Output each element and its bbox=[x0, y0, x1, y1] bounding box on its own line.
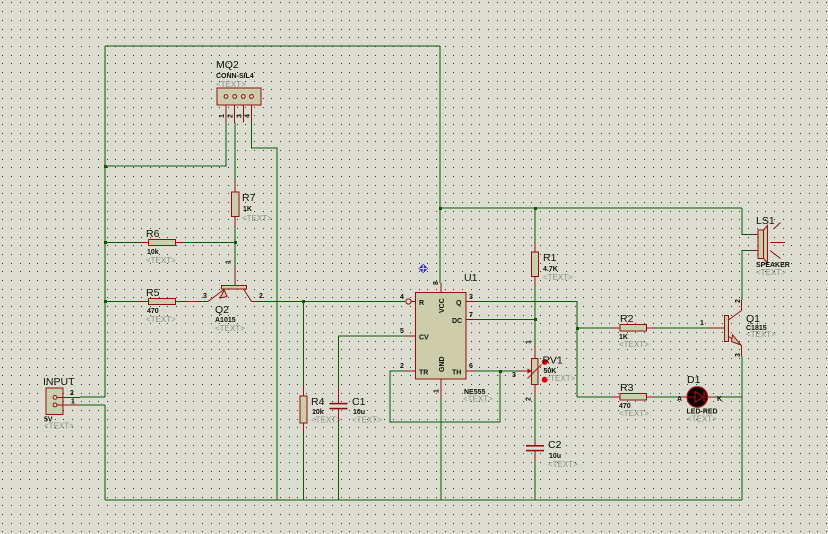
wire INPUT pin2 to rail bbox=[80, 396, 105, 398]
wire R3 right to LED anode bbox=[655, 396, 680, 398]
svg-text:2: 2 bbox=[526, 397, 533, 401]
resistor R4 bbox=[300, 386, 341, 432]
svg-text:TR: TR bbox=[419, 370, 428, 377]
wire MQ2 pin1 to left rail bbox=[105, 123, 226, 167]
wire speaker pin2 to Q1 collector bbox=[742, 251, 753, 301]
svg-text:2: 2 bbox=[259, 293, 263, 300]
resistor R7 bbox=[232, 181, 273, 226]
capacitor C1 bbox=[330, 386, 383, 425]
wire mid rail y=206 bbox=[440, 207, 742, 209]
svg-text:1: 1 bbox=[526, 340, 533, 344]
wire RV1 bottom to C2 bbox=[534, 397, 536, 440]
wire R2 right to Q1 base bbox=[655, 327, 708, 329]
svg-text:1: 1 bbox=[71, 399, 75, 406]
wire Q1 emitter down to ground bbox=[741, 356, 743, 500]
svg-text:<TEXT>: <TEXT> bbox=[352, 416, 382, 425]
svg-text:1: 1 bbox=[226, 260, 233, 264]
svg-text:1: 1 bbox=[700, 320, 704, 327]
svg-text:<TEXT>: <TEXT> bbox=[242, 214, 272, 223]
wire branch to R2 bbox=[577, 327, 612, 329]
wire speaker pin1 from rail bbox=[742, 208, 753, 235]
svg-text:U1: U1 bbox=[464, 272, 478, 284]
wire R6 left to rail bbox=[105, 242, 140, 244]
svg-text:RV1: RV1 bbox=[543, 355, 563, 367]
svg-text:CONN-SIL4: CONN-SIL4 bbox=[216, 73, 254, 80]
svg-text:MQ2: MQ2 bbox=[216, 59, 239, 71]
svg-text:R2: R2 bbox=[620, 313, 634, 325]
node junction TH loop bbox=[499, 370, 502, 373]
resistor R2 bbox=[612, 313, 655, 349]
svg-text:3: 3 bbox=[469, 294, 473, 301]
wire bottom ground rail bbox=[105, 499, 742, 501]
svg-text:470: 470 bbox=[147, 308, 159, 315]
svg-text:2: 2 bbox=[228, 114, 235, 118]
svg-text:DC: DC bbox=[452, 318, 462, 325]
svg-text:R7: R7 bbox=[242, 192, 256, 204]
svg-text:1: 1 bbox=[219, 114, 226, 118]
svg-text:7: 7 bbox=[469, 312, 473, 319]
wire MQ2 pin4 down to ground bbox=[252, 123, 278, 501]
resistor R5 bbox=[140, 287, 184, 324]
wire TH to RV1 wiper bbox=[476, 370, 517, 372]
svg-text:<TEXT>: <TEXT> bbox=[311, 416, 341, 425]
svg-text:R4: R4 bbox=[311, 396, 325, 408]
svg-text:C2: C2 bbox=[548, 439, 562, 451]
capacitor C2 bbox=[526, 439, 578, 469]
transistor Q1 C1815 NPN bbox=[700, 299, 776, 357]
wire R4 bottom to ground bbox=[303, 432, 305, 500]
speaker LS1 bbox=[753, 215, 790, 277]
svg-text:1: 1 bbox=[434, 389, 441, 393]
svg-text:5: 5 bbox=[400, 328, 404, 335]
transistor Q2 A1015 PNP bbox=[199, 260, 269, 333]
svg-text:D1: D1 bbox=[687, 374, 701, 386]
svg-text:3: 3 bbox=[735, 353, 742, 357]
svg-text:<TEXT>: <TEXT> bbox=[543, 273, 573, 282]
wire DC to R1/RV1 net bbox=[476, 319, 535, 321]
wire MQ2 pin2 to R7 bbox=[234, 123, 236, 182]
svg-text:2: 2 bbox=[70, 390, 74, 397]
svg-text:2: 2 bbox=[735, 299, 742, 303]
svg-text:<TEXT>: <TEXT> bbox=[44, 422, 74, 431]
LED D1 bbox=[677, 374, 722, 424]
svg-text:R5: R5 bbox=[146, 287, 160, 299]
svg-text:R3: R3 bbox=[620, 382, 634, 394]
node junction R2 branch bbox=[576, 327, 579, 330]
node junction R1 top bbox=[534, 207, 537, 210]
svg-text:CV: CV bbox=[419, 335, 429, 342]
wire CV to C1 bbox=[339, 336, 405, 386]
resistor R1 bbox=[532, 242, 574, 286]
wire U1 GND to ground rail bbox=[440, 398, 442, 500]
wire left rail upper bbox=[104, 46, 106, 397]
svg-text:10k: 10k bbox=[147, 249, 159, 256]
svg-text:TH: TH bbox=[452, 370, 461, 377]
svg-text:R6: R6 bbox=[146, 228, 160, 240]
svg-text:1K: 1K bbox=[243, 206, 252, 213]
svg-text:LS1: LS1 bbox=[756, 215, 775, 227]
svg-text:INPUT: INPUT bbox=[43, 376, 75, 388]
svg-text:3: 3 bbox=[512, 372, 516, 379]
svg-text:Q2: Q2 bbox=[215, 304, 229, 316]
svg-text:6: 6 bbox=[469, 363, 473, 370]
svg-text:<TEXT>: <TEXT> bbox=[756, 268, 786, 277]
wire to R3 bbox=[577, 396, 612, 398]
node junction left rail R6 bbox=[104, 241, 107, 244]
wire Q2 collector to U1 R pin bbox=[269, 301, 405, 303]
svg-text:VCC: VCC bbox=[439, 298, 446, 313]
node junction R6-R7 net bbox=[234, 241, 237, 244]
wire C1 bottom to ground bbox=[338, 422, 340, 500]
svg-text:8: 8 bbox=[433, 281, 440, 285]
origin marker bbox=[419, 264, 428, 273]
svg-text:<TEXT>: <TEXT> bbox=[216, 80, 246, 89]
resistor R3 bbox=[612, 382, 655, 418]
connector INPUT bbox=[43, 376, 80, 431]
svg-text:4: 4 bbox=[400, 294, 404, 301]
svg-text:10u: 10u bbox=[549, 453, 561, 460]
svg-text:<TEXT>: <TEXT> bbox=[746, 330, 776, 339]
potentiometer RV1 bbox=[512, 340, 576, 401]
resistor R6 bbox=[140, 228, 184, 265]
node junction left rail R5 bbox=[104, 300, 107, 303]
svg-text:<TEXT>: <TEXT> bbox=[687, 415, 717, 424]
svg-text:R: R bbox=[419, 300, 424, 307]
wire left rail lower bbox=[104, 405, 106, 500]
svg-text:<TEXT>: <TEXT> bbox=[546, 374, 576, 383]
svg-text:C1: C1 bbox=[352, 396, 366, 408]
svg-text:A: A bbox=[677, 396, 682, 403]
svg-text:4: 4 bbox=[245, 114, 252, 118]
svg-text:2: 2 bbox=[400, 363, 404, 370]
svg-text:<TEXT>: <TEXT> bbox=[619, 409, 649, 418]
node junction R4 top bbox=[302, 300, 305, 303]
wire R7 bottom to Q2 base bbox=[234, 226, 236, 267]
svg-text:<TEXT>: <TEXT> bbox=[619, 340, 649, 349]
svg-text:<TEXT>: <TEXT> bbox=[146, 315, 176, 324]
svg-text:<TEXT>: <TEXT> bbox=[548, 460, 578, 469]
svg-text:<TEXT>: <TEXT> bbox=[146, 256, 176, 265]
svg-text:<TEXT>: <TEXT> bbox=[463, 395, 493, 404]
wire R1 top to rail bbox=[534, 208, 536, 242]
svg-text:K: K bbox=[717, 396, 722, 403]
node junction DC R1 bbox=[534, 318, 537, 321]
wire VCC vertical x=440 bbox=[439, 46, 441, 283]
wire R4 top branch bbox=[303, 302, 305, 387]
svg-text:3: 3 bbox=[236, 114, 243, 118]
wire R5 left to rail bbox=[105, 301, 140, 303]
svg-text:Q1: Q1 bbox=[746, 313, 760, 325]
wire R5 right to Q2 emitter bbox=[184, 301, 199, 303]
connector MQ2 CONN-SIL4 bbox=[216, 59, 261, 123]
wire TR loop to TH bbox=[390, 371, 500, 422]
wire Q output down right bbox=[476, 302, 577, 398]
wire INPUT pin1 to ground bbox=[80, 404, 105, 406]
svg-text:<TEXT>: <TEXT> bbox=[215, 324, 245, 333]
op-amp U1 NE555 bbox=[400, 272, 493, 404]
node junction left rail y166 bbox=[104, 165, 107, 168]
svg-text:GND: GND bbox=[439, 356, 446, 372]
wire C2 bottom to ground bbox=[534, 462, 536, 500]
svg-text:Q: Q bbox=[456, 300, 462, 307]
svg-text:3: 3 bbox=[203, 293, 207, 300]
wire top rail bbox=[105, 45, 440, 47]
wire R6 right to R7-Q2 net bbox=[184, 242, 235, 244]
svg-text:4.7K: 4.7K bbox=[543, 266, 558, 273]
svg-text:R1: R1 bbox=[543, 252, 557, 264]
svg-text:A1015: A1015 bbox=[215, 317, 236, 324]
node junction VCC rail bbox=[439, 207, 442, 210]
wire LED cathode to emitter net bbox=[715, 396, 742, 398]
wire R1 bottom to RV1 bbox=[534, 286, 536, 346]
